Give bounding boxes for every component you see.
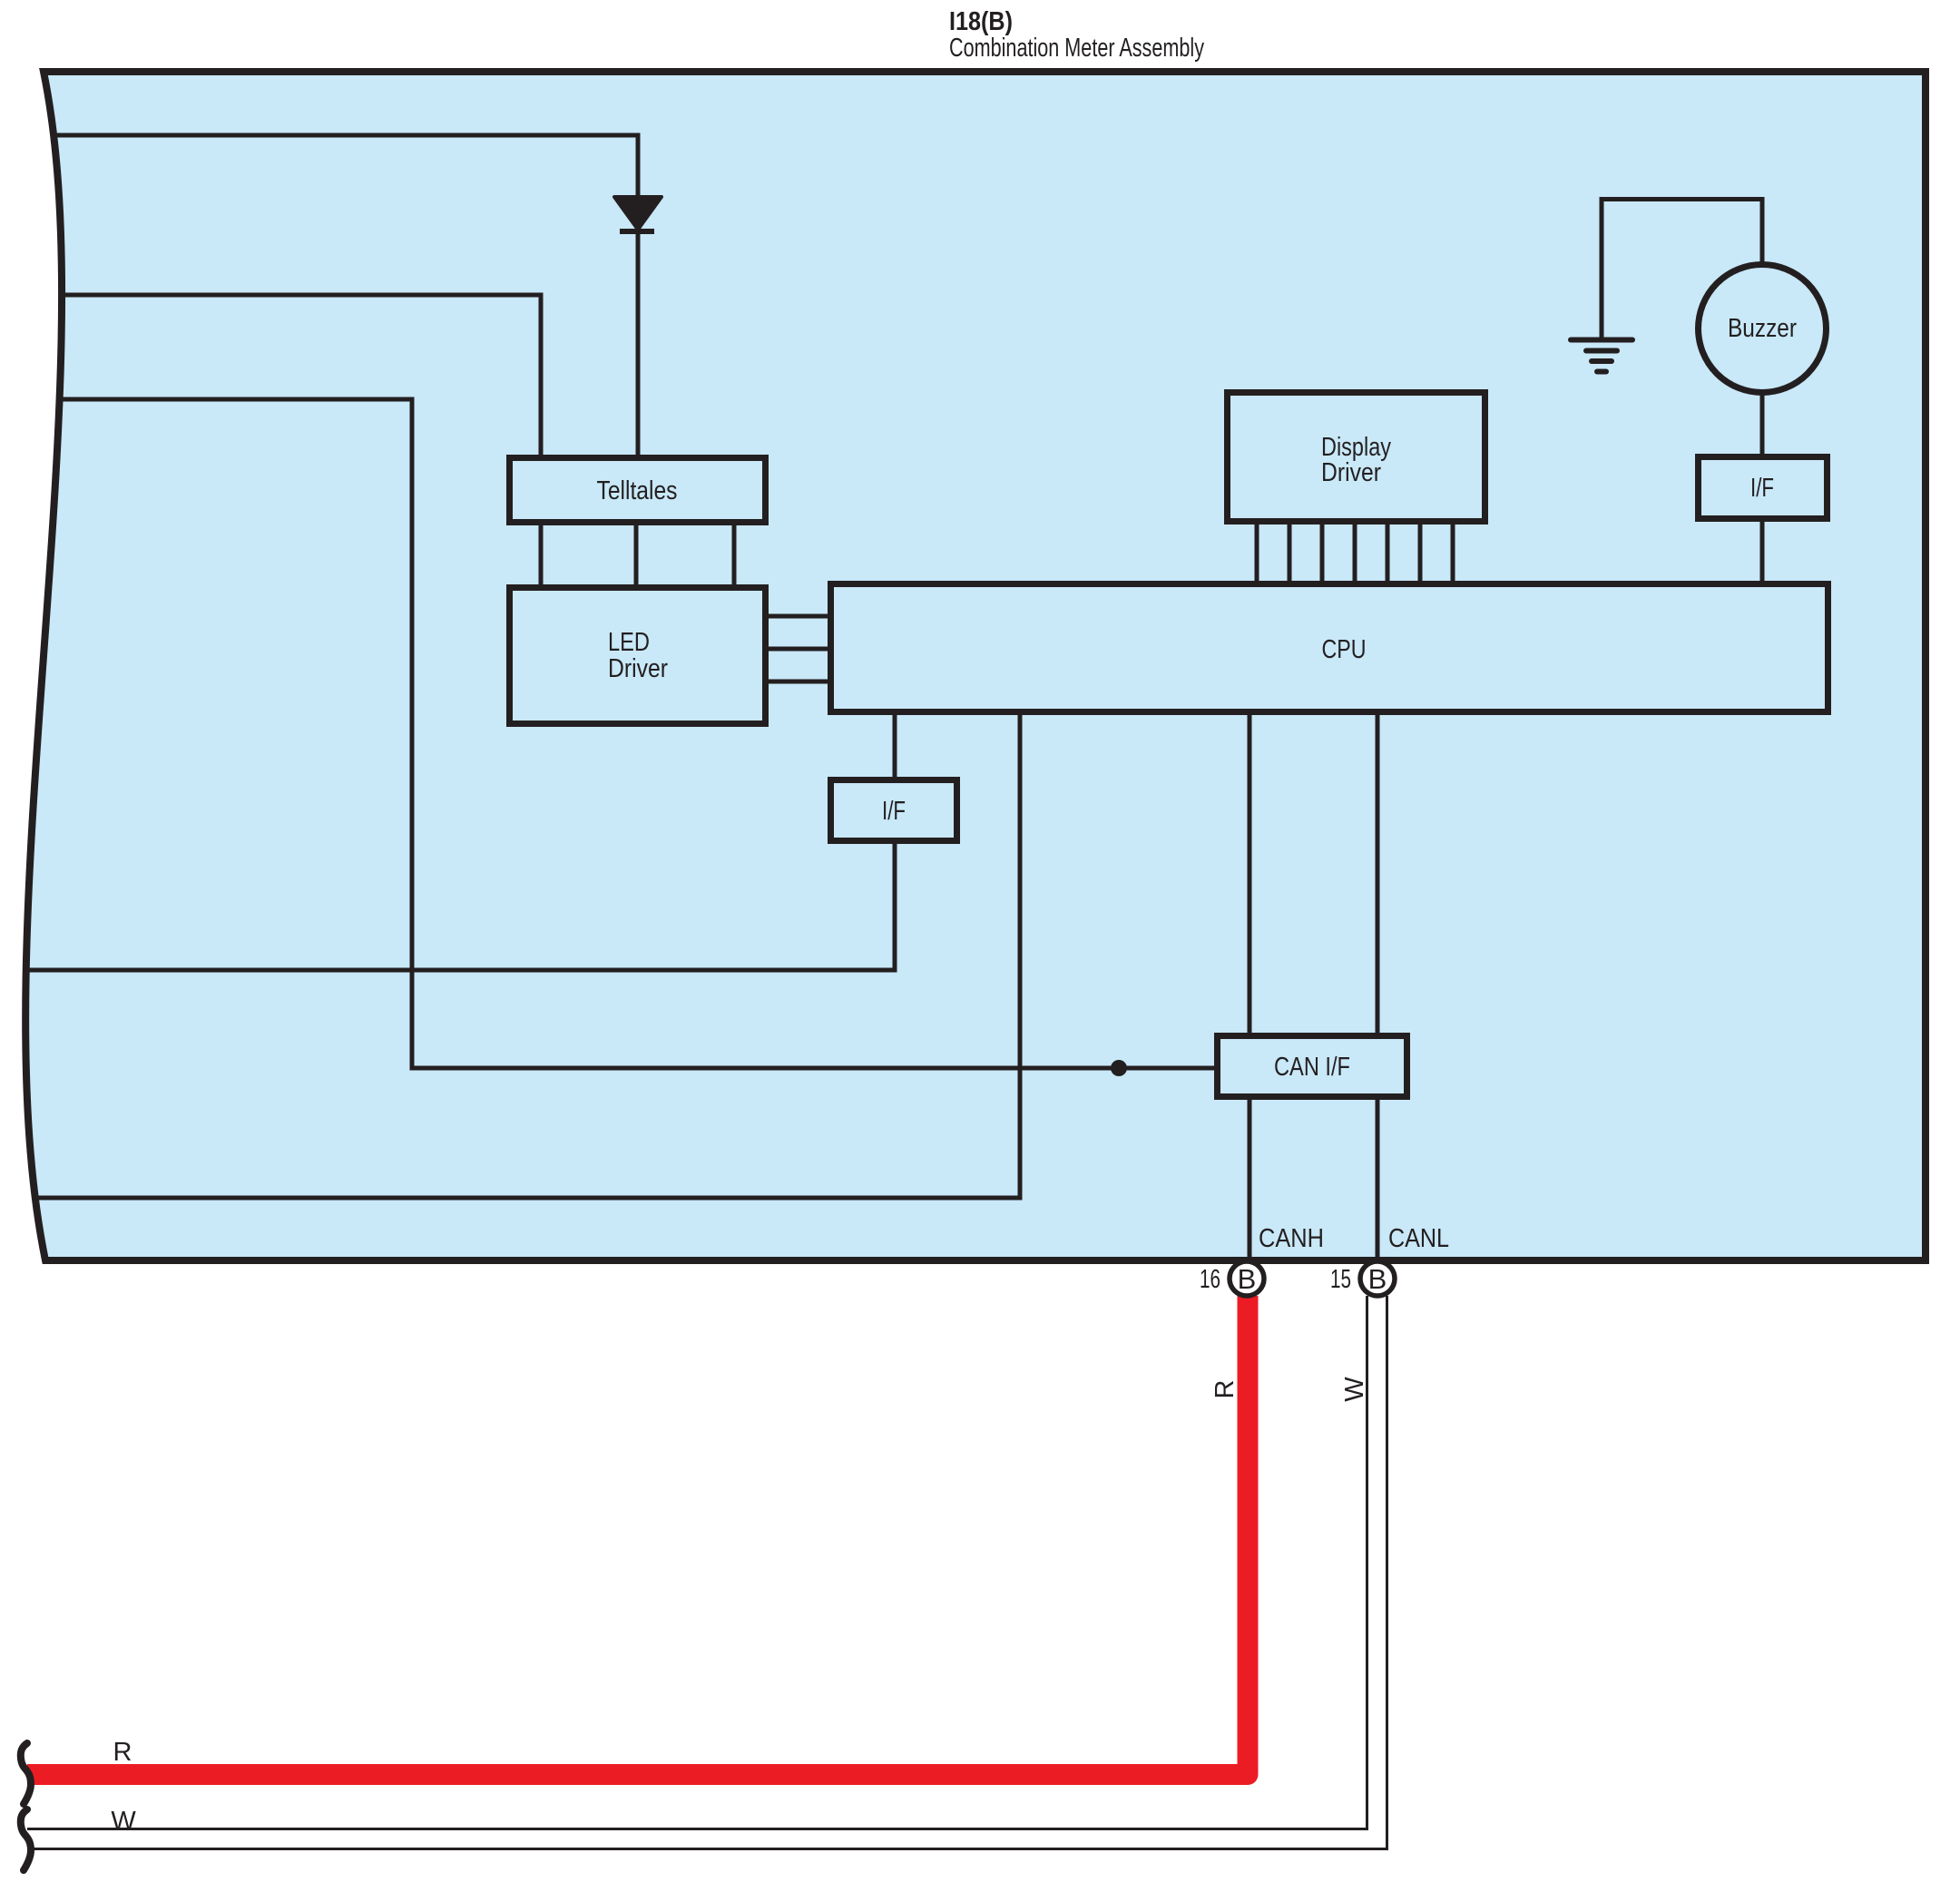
svg-text:LED: LED: [608, 628, 650, 657]
svg-text:R: R: [1210, 1380, 1240, 1399]
svg-text:I/F: I/F: [882, 797, 906, 826]
svg-text:Driver: Driver: [1321, 458, 1381, 487]
svg-text:W: W: [1340, 1377, 1369, 1402]
svg-text:Combination Meter Assembly: Combination Meter Assembly: [949, 34, 1204, 63]
svg-text:Driver: Driver: [608, 654, 668, 683]
svg-text:W: W: [111, 1807, 136, 1836]
svg-text:CANH: CANH: [1259, 1224, 1324, 1253]
svg-text:B: B: [1368, 1263, 1387, 1295]
svg-text:Telltales: Telltales: [597, 476, 678, 505]
svg-text:B: B: [1238, 1263, 1257, 1295]
svg-text:Buzzer: Buzzer: [1728, 314, 1797, 343]
svg-text:CPU: CPU: [1322, 635, 1367, 664]
svg-text:R: R: [113, 1738, 132, 1767]
svg-text:I/F: I/F: [1750, 474, 1774, 503]
svg-text:16: 16: [1200, 1265, 1220, 1294]
svg-text:I18(B): I18(B): [949, 7, 1013, 36]
svg-text:15: 15: [1330, 1265, 1351, 1294]
svg-text:CAN I/F: CAN I/F: [1274, 1053, 1350, 1082]
svg-text:CANL: CANL: [1388, 1224, 1449, 1253]
